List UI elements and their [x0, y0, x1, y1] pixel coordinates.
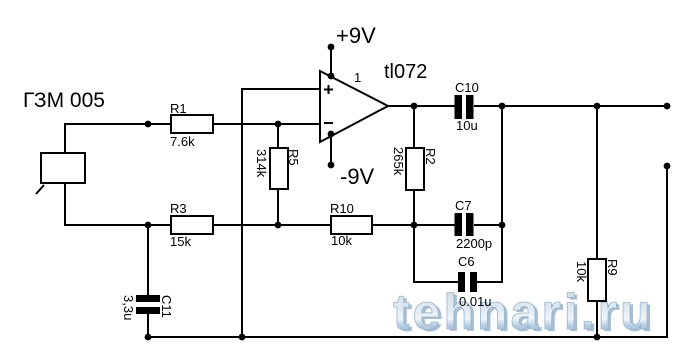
wire R1 to opamp inverting input: [213, 123, 320, 125]
junction C11 ground: [145, 334, 152, 341]
svg-text:10k: 10k: [574, 261, 589, 282]
svg-text:R10: R10: [330, 201, 354, 216]
svg-text:1: 1: [354, 70, 361, 85]
svg-text:C10: C10: [455, 80, 479, 95]
wire C6 left branch: [414, 225, 458, 282]
capacitor C11: [136, 295, 160, 314]
svg-text:265k: 265k: [391, 147, 406, 176]
svg-text:tl072: tl072: [384, 61, 427, 83]
wire cartridge bottom vertical: [65, 183, 171, 225]
svg-text:0.01u: 0.01u: [459, 294, 492, 309]
svg-text:C7: C7: [455, 198, 472, 213]
opamp minus input marking: [324, 122, 333, 124]
svg-text:2200p: 2200p: [456, 236, 492, 251]
junction R9 top: [594, 103, 601, 110]
wire V+ supply: [330, 47, 332, 76]
svg-text:tehnari.ru: tehnari.ru: [393, 284, 654, 340]
capacitor C7: [455, 213, 474, 236]
capacitor C6: [458, 272, 477, 292]
wire bottom rail: [148, 166, 667, 337]
svg-text:R2: R2: [423, 148, 438, 165]
svg-text:R3: R3: [170, 201, 187, 216]
resistor R2: [406, 148, 424, 190]
node V- terminal: [328, 162, 335, 169]
svg-text:10k: 10k: [331, 233, 352, 248]
wire R10 to C7: [372, 224, 455, 226]
svg-text:C6: C6: [458, 254, 475, 269]
node output terminal: [664, 103, 671, 110]
wire C11 top lead: [147, 225, 149, 295]
wire C10 to output terminal: [474, 105, 667, 107]
junction R9 ground: [594, 334, 601, 341]
svg-text:-9V: -9V: [340, 164, 375, 189]
wire noninverting input from ground line: [242, 89, 320, 337]
wire R2 top lead: [413, 106, 415, 148]
op-amp U1 tl072: [320, 71, 388, 142]
junction R3 input: [145, 222, 152, 229]
junction V- pin: [328, 131, 335, 138]
junction node R5 top: [275, 121, 282, 128]
wire R2 bottom lead: [413, 190, 415, 225]
wire R9 bottom lead: [596, 301, 598, 337]
resistor R1: [171, 115, 213, 133]
svg-text:3,3u: 3,3u: [121, 295, 136, 320]
wire R3 to R10: [213, 224, 331, 226]
wire R5 bottom lead: [277, 189, 279, 225]
svg-text:R1: R1: [170, 101, 187, 116]
junction C7 right: [499, 222, 506, 229]
wire V- supply: [330, 134, 332, 165]
capacitor C10: [455, 95, 474, 119]
junction output R2: [411, 103, 418, 110]
junction R2 bottom: [411, 222, 418, 229]
junction R5 bottom: [275, 222, 282, 229]
svg-text:C11: C11: [159, 295, 174, 318]
svg-text:ГЗМ 005: ГЗМ 005: [23, 89, 105, 112]
wire cartridge top vertical: [65, 124, 171, 153]
junction C10 right: [499, 103, 506, 110]
svg-text:+9V: +9V: [336, 23, 376, 48]
resistor R9: [588, 259, 606, 301]
wire R5 top lead: [277, 124, 279, 148]
opamp plus input marking: [324, 85, 333, 94]
svg-text:R5: R5: [286, 149, 301, 166]
cartridge GZM 005: [36, 153, 85, 194]
resistor R3: [171, 216, 213, 234]
svg-text:314k: 314k: [254, 149, 269, 178]
wire R9 top lead: [596, 106, 598, 259]
svg-text:R9: R9: [605, 259, 620, 276]
wire C11 bottom lead: [147, 314, 149, 337]
junction node R1 input: [145, 121, 152, 128]
resistor R10: [331, 216, 372, 234]
svg-text:7.6k: 7.6k: [170, 134, 195, 149]
junction V+ pin: [328, 73, 335, 80]
wire C6 right branch: [477, 106, 502, 282]
junction ground line: [239, 334, 246, 341]
wire opamp output to C10: [388, 105, 455, 107]
resistor R5: [270, 148, 288, 189]
wire C7 right: [474, 224, 502, 226]
svg-text:15k: 15k: [170, 234, 191, 249]
svg-text:10u: 10u: [456, 118, 478, 133]
node V+ terminal: [328, 44, 335, 51]
node return terminal: [664, 163, 671, 170]
